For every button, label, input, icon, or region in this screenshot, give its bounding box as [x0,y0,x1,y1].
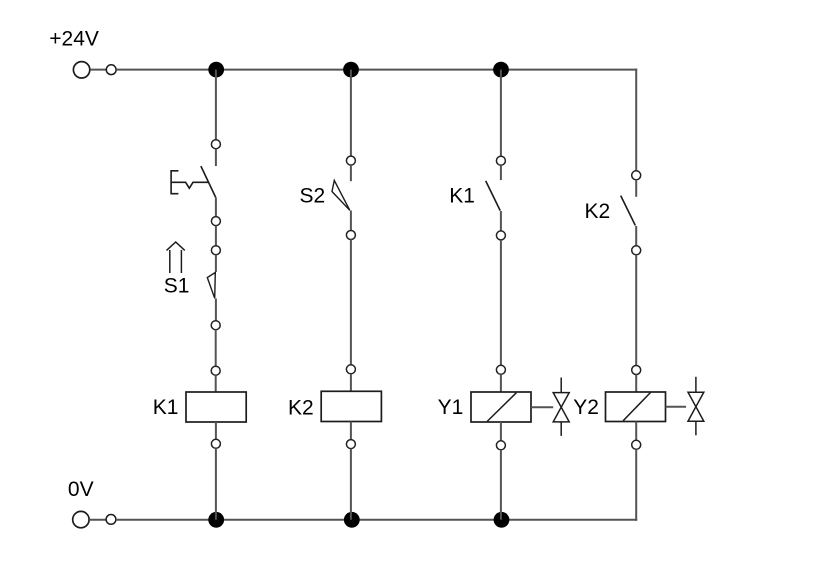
wire [350,422,352,440]
wire [215,226,217,246]
wire [215,375,217,392]
pin [496,365,505,374]
pin [211,140,220,149]
wire [350,449,352,520]
node top-left [106,65,116,75]
svg-text:Y2: Y2 [573,396,599,419]
wire [215,422,217,439]
junction [343,62,359,78]
svg-text:S2: S2 [300,184,326,207]
solenoid coil Y1 [471,392,531,422]
wire [635,255,637,366]
svg-text:K2: K2 [288,397,314,420]
wire [500,374,502,392]
svg-text:Y1: Y1 [438,396,464,419]
wire [500,240,502,365]
svg-text:K1: K1 [449,184,475,207]
pin [496,231,505,240]
pin [632,440,641,449]
wire [635,180,637,197]
wire [215,255,217,272]
junction [494,512,510,528]
pin [632,171,641,180]
wire Y2 to valve [666,406,687,408]
wire [500,422,502,441]
wire branch3 top [500,70,502,157]
wire [500,165,502,180]
coil K2 [321,391,381,421]
svg-text:S1: S1 [164,275,190,298]
junction [208,512,224,528]
pin [211,246,220,255]
valve symbol Y1 [553,378,569,436]
wire [635,422,637,441]
wire top rail [116,69,637,71]
switch S1 actuator [171,171,208,194]
wire [350,165,352,181]
pin [632,366,641,375]
switch S1 latch contact [207,273,215,299]
pin [211,366,220,375]
junction [493,62,509,78]
pin [346,231,355,240]
switch S1 NC contact blade [201,166,216,197]
contact K2 blade [621,196,636,226]
wire [90,519,107,521]
wire branch1 top [215,70,217,140]
wire [500,450,502,520]
wire [215,448,217,520]
junction [344,512,360,528]
pin [346,440,355,449]
pin [211,439,220,448]
terminal +24V [73,62,89,78]
arrow S1 actuation [167,242,185,273]
wire [215,330,217,367]
junction [208,62,224,78]
svg-text:+24V: +24V [49,28,99,51]
pin [211,321,220,330]
wire Y1 to valve [531,406,553,408]
wire [215,149,217,166]
wire bottom rail [116,519,637,521]
wire [635,226,637,246]
contact K1 blade [486,181,501,211]
svg-text:K1: K1 [153,396,179,419]
terminal 0V [73,511,89,527]
svg-text:K2: K2 [585,200,611,223]
coil K1 [186,392,246,422]
pin [346,365,355,374]
valve symbol Y2 [688,377,704,436]
wire [350,374,352,392]
pushbutton S2 contact [332,180,350,210]
wire [635,449,637,521]
svg-text:0V: 0V [68,478,94,501]
wire [350,240,352,365]
wire [215,299,217,321]
pin [496,156,505,165]
wire [500,211,502,231]
wire branch2 top [350,70,352,157]
wire [90,69,106,71]
wire branch4 top [635,69,637,171]
node bottom-left [106,515,116,525]
wire [215,197,217,216]
pin [346,156,355,165]
pin [496,441,505,450]
pin [211,217,220,226]
pin [632,246,641,255]
wire [350,211,352,231]
solenoid coil Y2 [606,392,666,422]
wire [635,375,637,393]
